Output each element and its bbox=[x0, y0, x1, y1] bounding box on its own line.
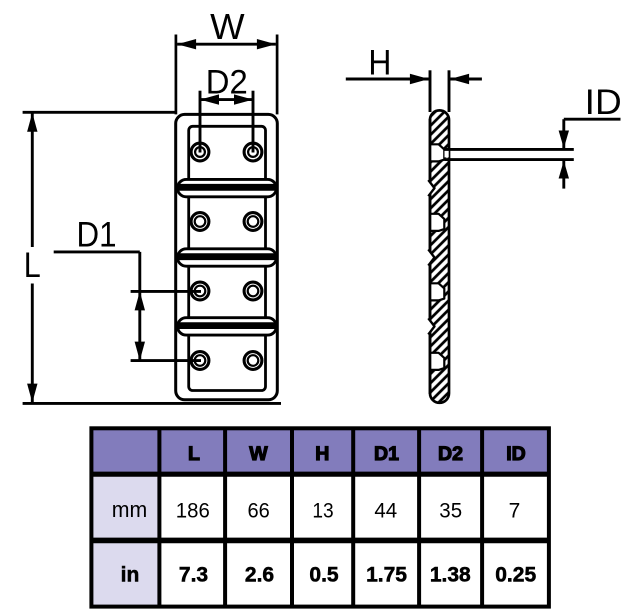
dimension D2 line with arrows bbox=[200, 94, 253, 104]
svg-text:13: 13 bbox=[312, 499, 333, 522]
rib 2 bbox=[176, 249, 278, 266]
svg-text:L: L bbox=[24, 245, 41, 285]
side rib notch 2 bbox=[428, 249, 434, 265]
table header labels bbox=[188, 443, 526, 465]
inner panel section 1 bbox=[189, 126, 266, 188]
side rib notch 1 bbox=[428, 180, 434, 196]
svg-text:44: 44 bbox=[374, 499, 397, 522]
table row in bbox=[121, 563, 537, 586]
side hole pocket 3 bbox=[429, 283, 444, 300]
side hole pocket 4 bbox=[429, 353, 444, 370]
hole B2 bbox=[244, 213, 262, 231]
rib 1 bbox=[176, 179, 278, 196]
side plate hatched body bbox=[430, 110, 449, 402]
inner panel section 4 bbox=[189, 327, 266, 391]
svg-text:in: in bbox=[121, 563, 140, 586]
table label cell in bbox=[91, 540, 159, 606]
inner panel section 2 bbox=[189, 188, 266, 257]
dimension D2 extension lines through holes A1 B1 bbox=[199, 91, 202, 153]
hole A1 bbox=[191, 143, 209, 161]
table grid bbox=[91, 428, 549, 606]
side hole pocket 1 bbox=[429, 144, 444, 161]
dimension D1 extension line upper through hole A3 bbox=[131, 290, 201, 293]
dimension ID leader bbox=[559, 119, 621, 188]
dimension W extension lines bbox=[175, 35, 178, 115]
hole B4 bbox=[244, 352, 262, 370]
svg-text:0.25: 0.25 bbox=[495, 563, 536, 586]
side rib notch 3 bbox=[428, 318, 434, 334]
hole B3 bbox=[244, 282, 262, 300]
svg-text:ID: ID bbox=[585, 82, 622, 122]
svg-text:W: W bbox=[210, 6, 245, 47]
svg-text:mm: mm bbox=[112, 497, 148, 522]
svg-text:W: W bbox=[249, 443, 268, 465]
svg-text:7: 7 bbox=[509, 499, 521, 522]
hole B1 bbox=[244, 143, 262, 161]
svg-text:7.3: 7.3 bbox=[179, 563, 208, 586]
ID bore lines bbox=[444, 148, 574, 151]
rib 3 bbox=[176, 318, 278, 335]
svg-text:35: 35 bbox=[439, 499, 462, 522]
dimension H line with arrows bbox=[346, 74, 482, 84]
table header row background bbox=[91, 428, 549, 474]
side bore clearance bbox=[445, 150, 449, 157]
plate front outline bbox=[176, 114, 278, 399]
table row mm bbox=[112, 497, 521, 522]
svg-text:H: H bbox=[315, 443, 329, 465]
svg-text:D2: D2 bbox=[438, 443, 463, 465]
inner panel section 3 bbox=[189, 258, 266, 327]
svg-text:D1: D1 bbox=[374, 443, 399, 465]
svg-text:2.6: 2.6 bbox=[245, 563, 274, 586]
svg-text:H: H bbox=[368, 43, 391, 83]
wire: L bottom extension line bbox=[23, 402, 281, 405]
dimension D1 extension line lower through hole A4 bbox=[131, 359, 201, 362]
side hole pocket 2 bbox=[429, 214, 444, 231]
table label cell mm bbox=[91, 474, 159, 540]
svg-text:ID: ID bbox=[506, 443, 526, 465]
svg-text:0.5: 0.5 bbox=[309, 563, 339, 586]
svg-text:D2: D2 bbox=[206, 63, 248, 101]
dimension D1 leader vertical and arrows bbox=[135, 252, 145, 361]
hole A4 bbox=[191, 352, 209, 370]
wire: L top extension line bbox=[23, 111, 176, 114]
svg-text:D1: D1 bbox=[77, 214, 117, 254]
svg-text:L: L bbox=[188, 443, 200, 465]
svg-text:186: 186 bbox=[176, 499, 210, 522]
svg-text:66: 66 bbox=[247, 499, 269, 522]
svg-text:1.75: 1.75 bbox=[366, 563, 407, 586]
hole A2 bbox=[191, 213, 209, 231]
hole A3 bbox=[191, 282, 209, 300]
dimension H extension lines bbox=[429, 70, 432, 112]
svg-text:1.38: 1.38 bbox=[430, 563, 471, 586]
side plate left edge bbox=[429, 119, 432, 394]
dimension D1 leader horizontal bbox=[54, 250, 140, 253]
dimension L line with arrows bbox=[27, 113, 37, 403]
dimension W line with arrows bbox=[177, 39, 276, 49]
